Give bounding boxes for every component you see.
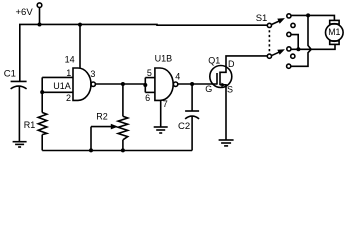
svg-text:M1: M1 [328,27,340,37]
svg-text:7: 7 [163,99,168,109]
svg-text:U1A: U1A [53,81,71,91]
svg-text:+6V: +6V [16,7,34,18]
svg-text:R1: R1 [24,120,36,130]
svg-text:4: 4 [175,72,180,82]
svg-text:14: 14 [65,54,75,64]
svg-text:D: D [228,59,235,69]
svg-text:2: 2 [66,93,71,103]
svg-text:S1: S1 [256,13,268,24]
svg-text:5: 5 [147,68,152,78]
svg-text:1: 1 [66,68,71,78]
svg-text:G: G [205,84,212,94]
svg-text:C2: C2 [178,121,190,132]
svg-text:Q1: Q1 [208,55,220,65]
svg-text:3: 3 [90,69,95,79]
svg-text:S: S [227,85,233,95]
svg-text:U1B: U1B [155,53,173,63]
svg-text:C1: C1 [4,69,16,80]
svg-text:6: 6 [145,93,150,103]
svg-text:R2: R2 [96,111,108,121]
